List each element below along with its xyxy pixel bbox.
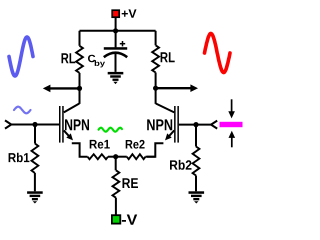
label +V [122,9,137,17]
label Re2 [126,140,145,149]
left output arrow [50,87,80,89]
capacitor plus polarity [120,43,125,45]
label NPN left [65,119,89,130]
node right collector junction [153,86,158,91]
wire Q1 emitter [64,130,71,138]
wire capacitor stem [115,31,117,48]
capacitor C_by [104,47,127,50]
ground (Rb2) [189,191,205,194]
small green emitter waveform [99,128,123,132]
right output arrow [156,87,191,89]
wire Rb1 upper [34,125,36,144]
node right base junction [193,122,198,127]
wire right base [179,124,211,126]
transistor Q2 NPN base bar [174,106,176,143]
wire capacitor to ground [115,54,117,72]
+V supply terminal [112,10,119,17]
node emitter center junction [113,154,118,159]
blue output waveform (left, inverted) [9,37,33,76]
wire center to Re2 [116,156,127,158]
down arrow above bar [231,99,233,112]
ground (Rb1) [27,191,43,194]
label Rb1 [9,153,30,163]
up arrow below bar [231,138,233,148]
wire left collector lower [79,73,81,104]
wire left base [11,124,59,126]
resistor RL (right) [152,45,159,72]
wire right collector lower [155,73,157,104]
wire Rb2 lower [195,176,197,192]
wire right collector upper [155,31,157,46]
label NPN right [147,119,172,130]
wire Q2 emitter [167,130,174,138]
wire Re2 to right corner [146,156,156,158]
label C_by [88,55,95,63]
label -V [122,215,137,225]
label RE [122,178,138,188]
small blue input waveform [14,107,31,114]
wire Re1 to center [108,156,116,158]
wire Rb1 lower [34,173,36,191]
-V supply terminal [112,215,120,223]
transistor Q1 NPN base bar [59,106,61,143]
label RL left [61,53,75,63]
resistor Re1 [88,154,109,159]
label Re1 [90,140,110,149]
wire RE upper [115,157,117,171]
right output terminal [211,121,217,129]
node top rail junction [113,28,118,33]
wire RE lower [115,198,117,215]
ground (capacitor) [108,72,124,75]
resistor RL (left) [76,46,83,73]
resistor Rb2 [193,147,200,176]
wire left collector diagonal [64,104,80,113]
resistor Re2 [127,154,146,159]
node left base junction [32,122,37,127]
wire right collector diagonal [156,104,174,113]
wire top supply rail [80,30,156,32]
label Rb2 [170,160,191,170]
wire Rb2 upper [195,125,197,147]
label RL right [161,52,175,62]
red output waveform (right) [205,34,231,73]
wire +V stem [115,18,117,31]
node left collector junction [77,86,82,91]
resistor RE [113,170,120,197]
left input terminal [5,120,11,128]
magenta output level bar [220,122,243,127]
resistor Rb1 [32,144,39,174]
wire left collector upper [79,31,81,46]
